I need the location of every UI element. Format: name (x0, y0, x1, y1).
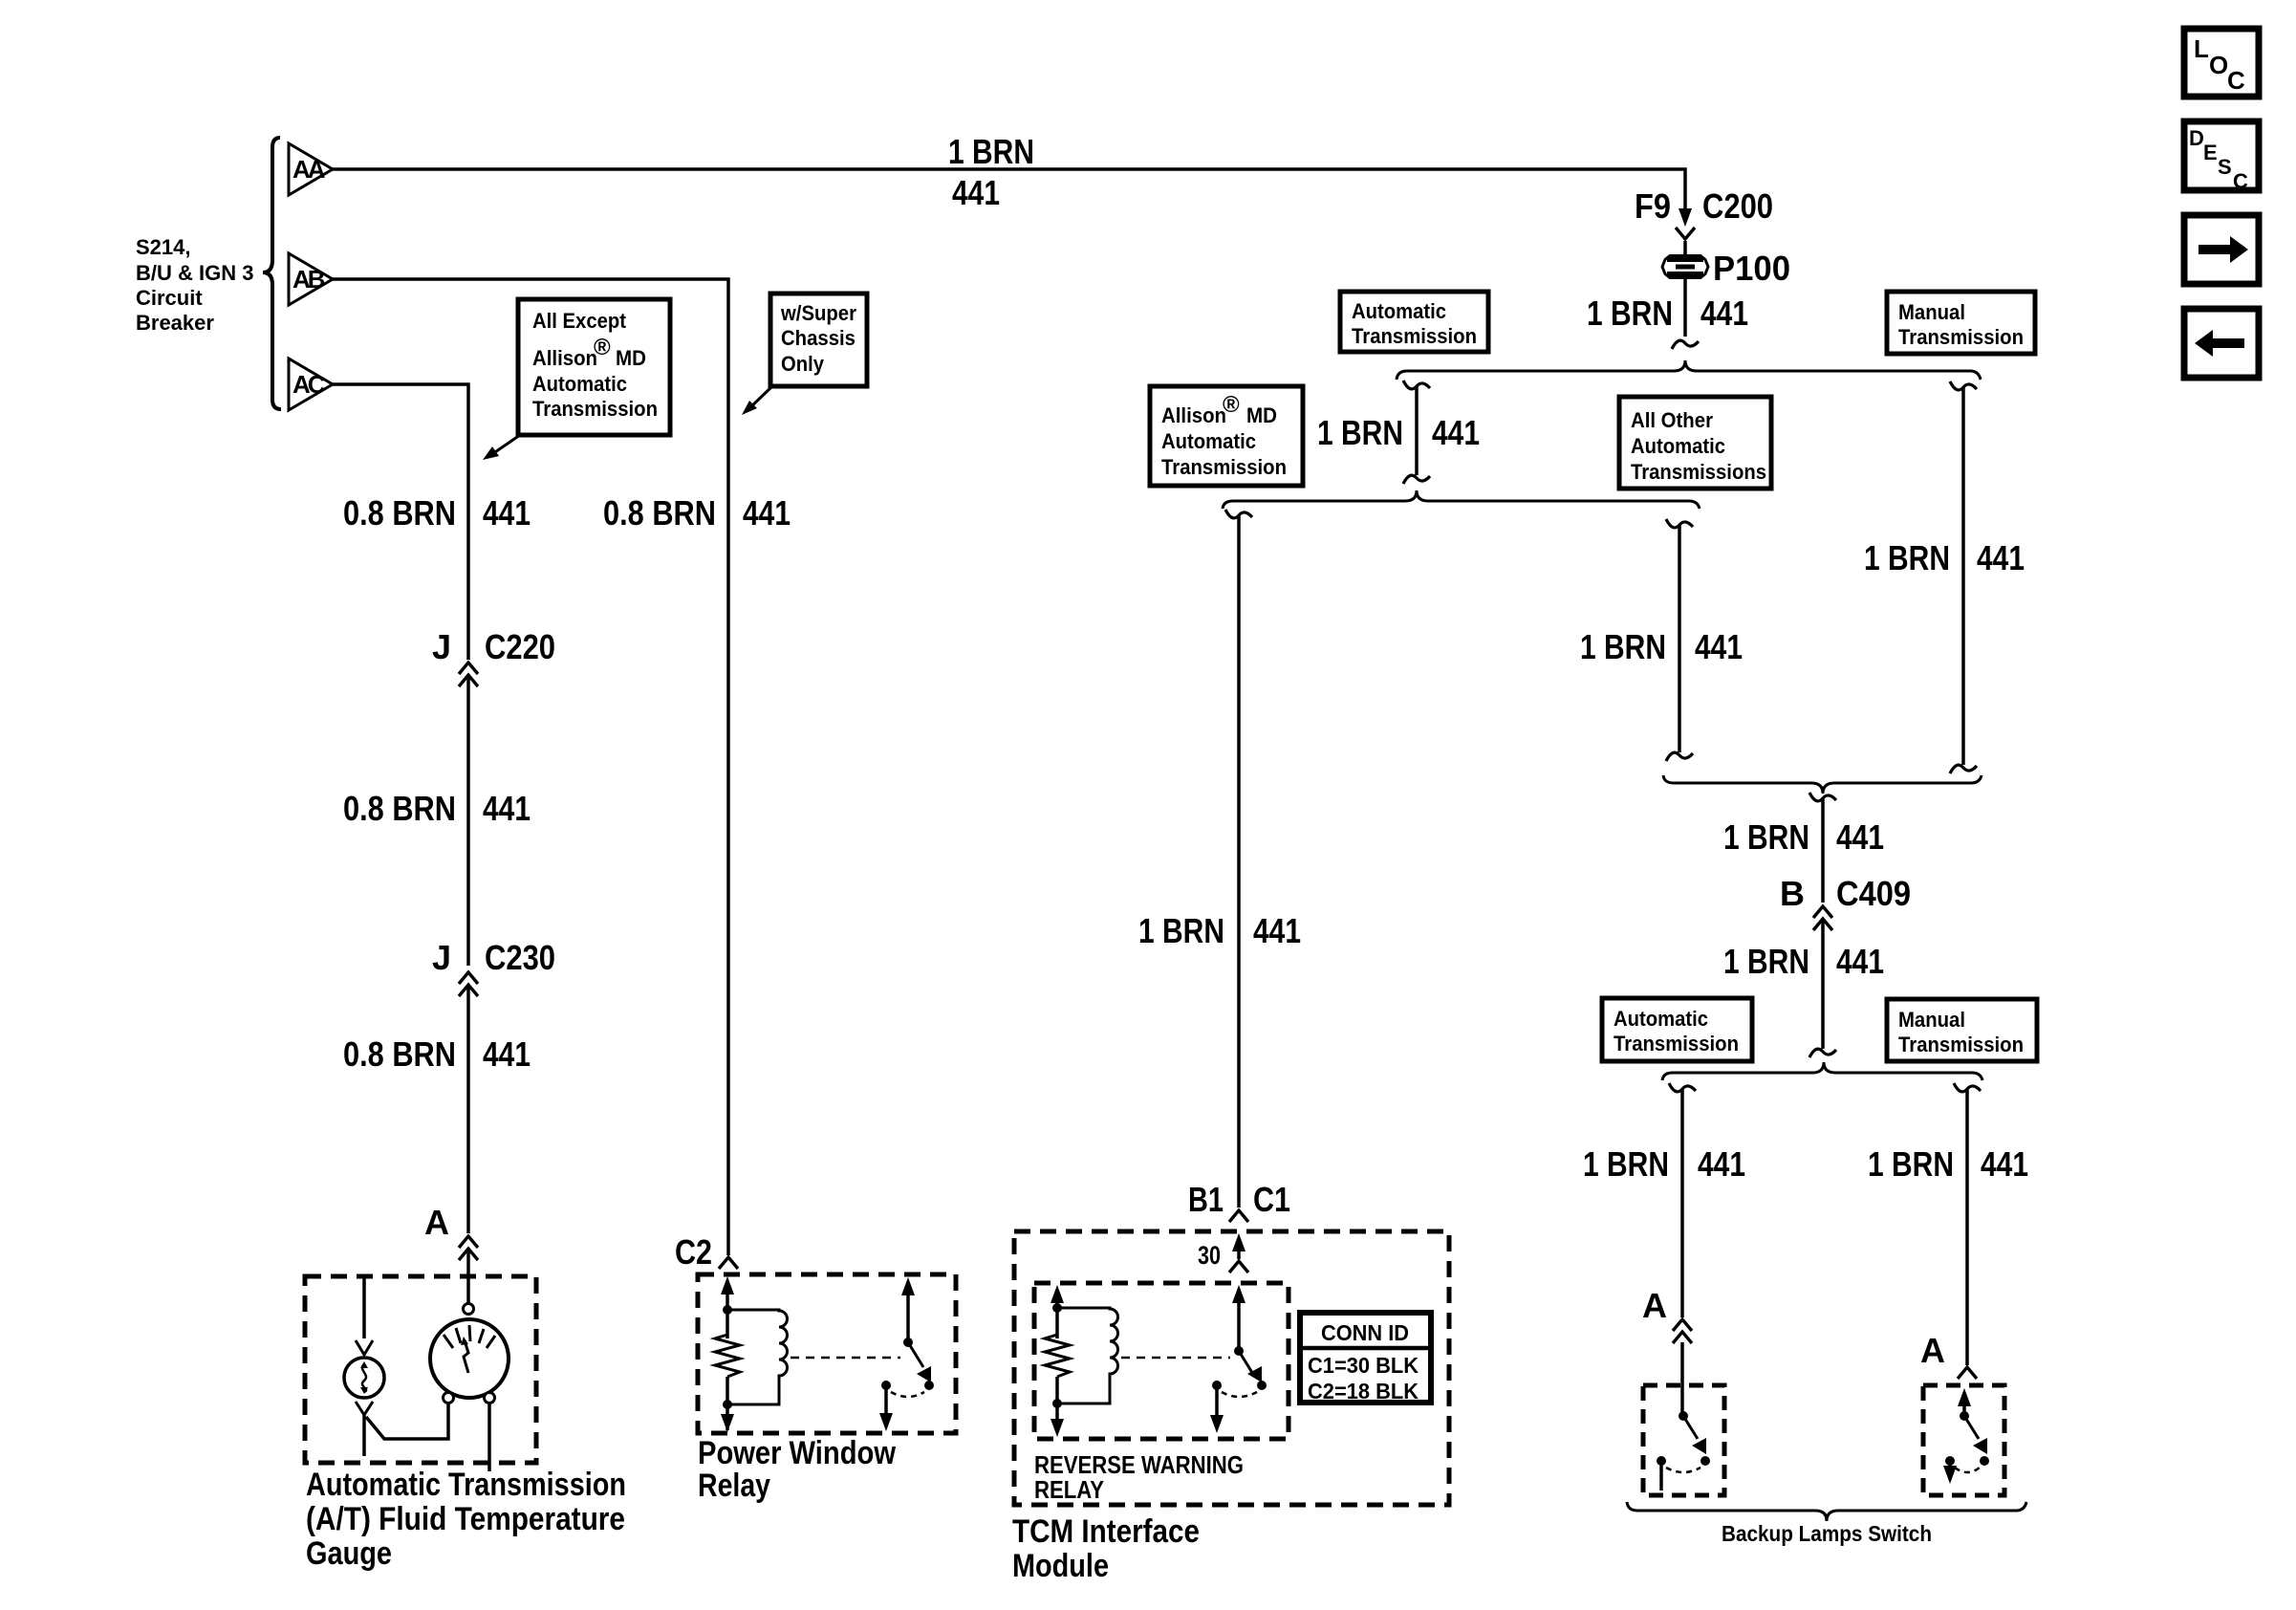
svg-text:1 BRN: 1 BRN (1864, 538, 1950, 577)
svg-text:Relay: Relay (698, 1468, 770, 1504)
svg-text:A: A (1920, 1331, 1945, 1370)
svg-text:1 BRN: 1 BRN (948, 132, 1034, 171)
svg-text:Circuit: Circuit (136, 286, 203, 310)
arrow from All Except box to AC wire (483, 435, 520, 460)
svg-text:MD: MD (1246, 403, 1277, 427)
power window relay contact (879, 1381, 893, 1431)
svg-text:Automatic: Automatic (532, 372, 627, 396)
box All Other Automatic Transmissions (1619, 397, 1771, 489)
table CONN ID (1300, 1313, 1431, 1403)
svg-text:Transmissions: Transmissions (1631, 460, 1766, 484)
svg-text:C220: C220 (485, 627, 555, 666)
gauge terminal bottom right (485, 1393, 495, 1403)
svg-text:CONN ID: CONN ID (1321, 1320, 1409, 1345)
svg-text:MD: MD (616, 346, 646, 370)
wire P100 to brace (1672, 278, 1699, 349)
svg-text:D: D (2189, 126, 2204, 150)
svg-text:1 BRN: 1 BRN (1583, 1144, 1669, 1184)
reverse warning relay switch common (1232, 1285, 1245, 1356)
svg-text:O: O (2209, 51, 2228, 79)
svg-text:Automatic Transmission: Automatic Transmission (306, 1467, 626, 1503)
svg-text:C409: C409 (1836, 874, 1911, 913)
svg-text:P100: P100 (1713, 249, 1790, 288)
svg-text:Power Window: Power Window (698, 1435, 896, 1471)
box Manual Transmission lower (1887, 999, 2037, 1061)
gauge bottom right lead (487, 1403, 491, 1471)
wire segment bracket automatic side (1403, 381, 1430, 484)
manual backup switch pin (1958, 1388, 1971, 1416)
wire brace to C409 (1809, 793, 1836, 903)
svg-text:B1: B1 (1188, 1180, 1224, 1219)
svg-text:A: A (1642, 1286, 1667, 1325)
icon box arrow left (2184, 309, 2259, 378)
svg-text:Automatic: Automatic (1631, 434, 1725, 458)
svg-text:Transmission: Transmission (1352, 324, 1477, 348)
svg-text:C1=30 BLK: C1=30 BLK (1308, 1353, 1419, 1378)
svg-text:Automatic: Automatic (1614, 1007, 1708, 1031)
label 1 BRN 441 all other bracket (1580, 627, 1743, 666)
power window relay resistor (715, 1335, 740, 1377)
label 0.8 BRN 441 on AC wire lower (343, 1034, 531, 1074)
wire to manual backup switch (1954, 1083, 1981, 1365)
power window relay throw arc (891, 1392, 924, 1397)
power window relay coil (727, 1310, 788, 1404)
connector C409 B (1780, 874, 1911, 930)
svg-text:1 BRN: 1 BRN (1138, 911, 1224, 950)
svg-text:0.8 BRN: 0.8 BRN (343, 1034, 456, 1074)
label 1 BRN 441 below C409 (1723, 942, 1884, 981)
svg-text:Module: Module (1012, 1548, 1109, 1584)
svg-text:30: 30 (1198, 1241, 1221, 1270)
dashed box TCM interface module (1014, 1231, 1449, 1505)
svg-text:Manual: Manual (1898, 1008, 1965, 1032)
wire AA to C200 (333, 169, 1685, 209)
reverse warning relay resistor (1045, 1335, 1070, 1377)
TCM pin 30 (1198, 1233, 1248, 1273)
svg-text:L: L (2194, 34, 2209, 63)
svg-text:S214,: S214, (136, 235, 191, 259)
svg-text:Allison: Allison (1161, 403, 1226, 427)
box Allison MD Automatic Transmission (1150, 386, 1303, 486)
box Automatic Transmission lower (1602, 998, 1752, 1061)
label 1 BRN 441 allison wire (1138, 911, 1301, 950)
svg-text:E: E (2203, 141, 2218, 164)
wire to automatic backup switch (1669, 1083, 1696, 1416)
gauge terminal bottom left (444, 1393, 454, 1403)
svg-text:441: 441 (483, 1034, 531, 1074)
dashed box manual backup lamps switch (1923, 1385, 2004, 1495)
svg-text:1 BRN: 1 BRN (1723, 817, 1809, 857)
label Automatic Transmission Fluid Temperature Gauge (306, 1467, 626, 1572)
label 0.8 BRN 441 on AC wire middle (343, 789, 531, 828)
svg-text:0.8 BRN: 0.8 BRN (343, 493, 456, 533)
label 1 BRN 441 above C409 (1723, 817, 1884, 857)
terminal A of gauge (424, 1203, 478, 1260)
power window relay actuation link (791, 1357, 900, 1360)
svg-text:441: 441 (1836, 942, 1884, 981)
reverse warning relay coil pin (1051, 1285, 1064, 1338)
label 1 BRN 441 manual backup (1868, 1144, 2028, 1184)
dashed box reverse warning relay (1034, 1283, 1289, 1439)
callout box All Except Allison MD Automatic Transmission (518, 299, 670, 435)
wire allison branch top (1225, 510, 1252, 1207)
dashed box power window relay (698, 1274, 956, 1433)
svg-text:C: C (2233, 169, 2248, 193)
gauge sender lead wire (356, 1278, 373, 1355)
svg-text:F9: F9 (1635, 186, 1671, 226)
terminal A manual backup switch (1920, 1331, 1977, 1379)
svg-text:RELAY: RELAY (1034, 1475, 1104, 1504)
brace split allison vs others (1223, 490, 1700, 509)
label 1 BRN 441 automatic bracket (1317, 413, 1480, 452)
connector C1 B1 TCM (1188, 1180, 1290, 1222)
gauge meter dial (430, 1319, 509, 1398)
svg-text:Only: Only (781, 352, 825, 376)
callout box w/Super Chassis Only (770, 294, 867, 386)
svg-text:B/U & IGN 3: B/U & IGN 3 (136, 261, 253, 285)
svg-text:J: J (432, 938, 451, 977)
manual backup switch throw arc (1955, 1468, 1980, 1472)
svg-text:441: 441 (743, 493, 791, 533)
svg-text:Breaker: Breaker (136, 311, 214, 335)
power window relay resistor bottom lead (721, 1377, 734, 1432)
svg-text:B: B (1780, 874, 1805, 913)
svg-text:Automatic: Automatic (1352, 299, 1446, 323)
svg-text:441: 441 (1700, 294, 1748, 333)
icon box LOC (2184, 29, 2259, 97)
svg-text:1 BRN: 1 BRN (1723, 942, 1809, 981)
box Automatic Transmission upper (1340, 292, 1488, 352)
svg-text:441: 441 (1836, 817, 1884, 857)
label 1 BRN 441 manual wire (1864, 538, 2025, 577)
label Power Window Relay (698, 1435, 896, 1504)
svg-text:Transmission: Transmission (1614, 1032, 1739, 1055)
brace backup lamps switch (1627, 1502, 2026, 1521)
svg-text:441: 441 (483, 789, 531, 828)
terminal A automatic backup switch (1642, 1286, 1692, 1343)
svg-text:C2: C2 (675, 1232, 712, 1272)
svg-text:Allison: Allison (532, 346, 597, 370)
reverse warning relay switch blade (1239, 1351, 1267, 1390)
power window relay switch blade (908, 1342, 934, 1390)
label TCM Interface Module (1012, 1513, 1200, 1584)
brace merge to C409 (1663, 775, 1982, 794)
svg-text:®: ® (594, 335, 611, 360)
box Manual Transmission upper (1887, 292, 2035, 354)
svg-text:441: 441 (1253, 911, 1301, 950)
svg-text:C230: C230 (485, 938, 555, 977)
connector triangle AB (289, 253, 333, 305)
automatic backup switch pivot (1679, 1411, 1688, 1421)
svg-text:A: A (424, 1203, 449, 1242)
svg-text:441: 441 (1981, 1144, 2028, 1184)
manual backup switch blade (1964, 1416, 1989, 1466)
wire C409 down to brace (1809, 920, 1836, 1057)
wire AB down to C2 (333, 279, 728, 1255)
svg-text:1 BRN: 1 BRN (1580, 627, 1666, 666)
wire segment bracket all other side (1666, 519, 1693, 761)
svg-text:1 BRN: 1 BRN (1868, 1144, 1954, 1184)
label REVERSE WARNING RELAY (1034, 1450, 1244, 1504)
svg-text:w/Super: w/Super (780, 301, 856, 325)
svg-text:441: 441 (1977, 538, 2025, 577)
reverse warning relay resistor bottom lead (1051, 1377, 1064, 1437)
label 1 BRN 441 at P100 (1587, 294, 1748, 333)
power window relay switch common (901, 1277, 915, 1347)
svg-text:Chassis: Chassis (781, 326, 856, 350)
arrow from w/Super box to AB wire (742, 386, 772, 415)
svg-text:(A/T) Fluid Temperature: (A/T) Fluid Temperature (306, 1501, 625, 1537)
svg-text:441: 441 (1695, 627, 1743, 666)
svg-text:0.8 BRN: 0.8 BRN (603, 493, 716, 533)
svg-text:Manual: Manual (1898, 300, 1965, 324)
gauge temperature sender (344, 1358, 384, 1398)
wire manual transmission branch (1950, 381, 1977, 773)
gauge sender bottom leads (356, 1402, 448, 1456)
svg-text:All Other: All Other (1631, 408, 1713, 432)
svg-text:Transmission: Transmission (1898, 1033, 2024, 1056)
automatic backup switch blade (1683, 1416, 1710, 1466)
dashed box A/T fluid temperature gauge (305, 1276, 536, 1463)
dashed box automatic backup lamps switch (1643, 1385, 1724, 1495)
automatic backup switch throw arc (1666, 1468, 1700, 1472)
manual backup switch contact (1943, 1456, 1957, 1484)
automatic backup switch contact (1657, 1456, 1666, 1490)
svg-text:Transmission: Transmission (532, 397, 658, 421)
svg-text:C1: C1 (1253, 1180, 1290, 1219)
connector C200 F9 (1635, 186, 1773, 239)
svg-text:Automatic: Automatic (1161, 429, 1256, 453)
svg-text:1 BRN: 1 BRN (1587, 294, 1673, 333)
icon box arrow right (2184, 215, 2259, 284)
svg-text:441: 441 (483, 493, 531, 533)
label S214 B/U IGN3 Circuit Breaker (136, 235, 253, 335)
pass-through grommet P100 (1662, 249, 1790, 288)
label 1 BRN 441 top (948, 132, 1034, 212)
svg-text:®: ® (1223, 392, 1240, 418)
svg-text:C200: C200 (1702, 186, 1773, 226)
label 1 BRN 441 automatic backup (1583, 1144, 1745, 1184)
brace S214 group (263, 138, 281, 409)
svg-text:All Except: All Except (532, 309, 627, 333)
reverse warning relay throw arc (1222, 1392, 1257, 1397)
connector C2 power window relay (675, 1232, 738, 1272)
reverse warning relay contact (1210, 1381, 1224, 1433)
svg-text:Gauge: Gauge (306, 1535, 392, 1572)
svg-text:Transmission: Transmission (1898, 325, 2024, 349)
svg-text:0.8 BRN: 0.8 BRN (343, 789, 456, 828)
connector triangle AC (289, 359, 333, 410)
brace split backup switch types (1662, 1062, 1982, 1080)
svg-text:441: 441 (1698, 1144, 1745, 1184)
svg-text:441: 441 (1432, 413, 1480, 452)
svg-text:TCM Interface: TCM Interface (1012, 1513, 1200, 1550)
svg-text:Transmission: Transmission (1161, 455, 1287, 479)
power window relay coil pin (721, 1276, 734, 1338)
svg-text:AA: AA (292, 155, 326, 184)
svg-text:C2=18 BLK: C2=18 BLK (1308, 1379, 1419, 1403)
manual backup switch pivot (1960, 1411, 1969, 1421)
reverse warning relay actuation link (1121, 1357, 1230, 1360)
svg-text:AC: AC (292, 370, 326, 399)
svg-text:S: S (2218, 155, 2232, 179)
label 0.8 BRN 441 on AB wire (603, 493, 791, 533)
reverse warning relay coil (1057, 1308, 1118, 1403)
connector C220 J (432, 627, 555, 686)
wire C200 to P100 (1683, 241, 1687, 256)
svg-text:AB: AB (292, 265, 325, 294)
svg-text:1 BRN: 1 BRN (1317, 413, 1403, 452)
brace split transmissions top (1397, 360, 1981, 380)
gauge terminal top (464, 1304, 474, 1315)
svg-text:J: J (432, 627, 451, 666)
svg-text:441: 441 (952, 173, 1000, 212)
svg-text:C: C (2227, 66, 2245, 95)
wire AC down to gauge (333, 384, 468, 1304)
connector triangle AA (289, 143, 333, 195)
connector C230 J (432, 938, 555, 996)
svg-text:Backup Lamps Switch: Backup Lamps Switch (1722, 1521, 1932, 1546)
label 0.8 BRN 441 on AC wire upper (343, 493, 531, 533)
icon box DESC (2184, 121, 2259, 193)
